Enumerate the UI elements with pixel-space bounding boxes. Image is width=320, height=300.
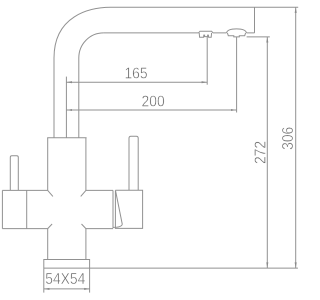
arrow 200 left bbox=[66, 109, 72, 111]
arrow 272 top bbox=[266, 37, 268, 43]
arrow 272 bottom bbox=[266, 262, 268, 268]
dimension line 272 bbox=[266, 37, 268, 268]
riser pipe right edge bbox=[78, 58, 80, 138]
arrow 165 left bbox=[66, 81, 72, 83]
svg-text:306: 306 bbox=[280, 127, 297, 150]
countertop baseline bbox=[90, 267, 298, 269]
extension line 272 top bbox=[247, 36, 270, 38]
base plate bottom edge bbox=[44, 267, 90, 269]
arrow 306 bottom bbox=[295, 262, 297, 268]
body column left edge upper bbox=[47, 138, 49, 191]
body column right edge upper bbox=[85, 138, 87, 191]
right handle box bbox=[115, 190, 142, 228]
right handle bottom arc bbox=[113, 224, 122, 227]
arrow 306 top bbox=[295, 7, 297, 13]
arrow 165 right bbox=[202, 81, 208, 83]
left handle box divider bbox=[26, 190, 28, 228]
extension line riser centerline bbox=[65, 77, 67, 138]
left lever bbox=[10, 156, 18, 191]
extension line big aerator bbox=[236, 37, 238, 113]
extension line small aerator bbox=[206, 37, 208, 85]
chamfer top-right bbox=[81, 190, 86, 196]
spout pipe bottom edge segments bbox=[104, 32, 255, 34]
cross arm bottom edge left segment bbox=[2, 228, 47, 230]
spout pipe top edge bbox=[111, 6, 255, 8]
body column left edge lower bbox=[47, 229, 49, 260]
aerator big dome bbox=[227, 29, 247, 33]
chamfer top-left bbox=[48, 190, 53, 196]
aerator small cup with notch bbox=[199, 33, 211, 37]
body top line bbox=[47, 137, 86, 139]
base plate bbox=[44, 260, 90, 269]
svg-text:54X54: 54X54 bbox=[45, 271, 85, 288]
svg-text:272: 272 bbox=[253, 141, 270, 164]
arrow 54 right bbox=[84, 288, 89, 290]
dimension line 165 bbox=[66, 81, 207, 83]
body column right edge lower bbox=[85, 229, 87, 260]
cross arm top edge left segment bbox=[2, 189, 47, 191]
arrow 54 left bbox=[44, 288, 50, 290]
right handle diagonal bbox=[116, 191, 123, 224]
cross arm bottom edge right segment bbox=[86, 228, 113, 230]
svg-text:165: 165 bbox=[124, 66, 147, 83]
spout outer bend curve bbox=[54, 7, 111, 58]
extension line plate right bbox=[89, 268, 91, 293]
right lever bbox=[129, 136, 138, 190]
chamfer bottom-left bbox=[48, 224, 52, 229]
dimension line 54x54 bbox=[44, 288, 90, 290]
dimension line 306 bbox=[295, 7, 297, 268]
spout inner bend curve bbox=[79, 33, 104, 58]
riser pipe left edge bbox=[53, 58, 55, 138]
right arm end cap bbox=[112, 190, 114, 228]
extension line 306 top bbox=[255, 6, 299, 8]
cross arm top edge right segment bbox=[86, 189, 113, 191]
dimension line 200 bbox=[66, 109, 236, 111]
left handle box left edge bbox=[1, 190, 3, 228]
chamfer bottom-right bbox=[82, 224, 86, 229]
spout pipe end cap bbox=[254, 7, 256, 33]
svg-text:200: 200 bbox=[142, 94, 165, 111]
arrow 200 right bbox=[231, 109, 237, 111]
aerator big cup with nozzle tab bbox=[227, 33, 245, 37]
aerator small collar bbox=[199, 31, 214, 33]
extension line plate left bbox=[43, 268, 45, 293]
